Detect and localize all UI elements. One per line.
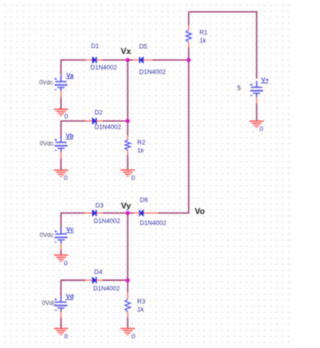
svg-text:1k: 1k bbox=[137, 306, 145, 313]
wire R1 top bbox=[188, 12, 190, 26]
diode D3 bbox=[92, 210, 96, 216]
wire Vx to D5 cathode bbox=[128, 59, 134, 61]
wire R3 to ground bbox=[127, 317, 129, 328]
wire D4 to R3 node bbox=[103, 279, 128, 281]
pin R1 top lead bbox=[188, 26, 190, 31]
wire Va top pin bbox=[60, 59, 62, 75]
svg-text:0: 0 bbox=[64, 175, 68, 182]
pin D1 cathode lead bbox=[97, 59, 103, 61]
svg-text:D6: D6 bbox=[140, 197, 149, 204]
resistor R2 bbox=[125, 140, 130, 151]
svg-text:D1: D1 bbox=[91, 43, 100, 50]
pin D6 cathode lead bbox=[133, 212, 139, 214]
resistor R1 bbox=[186, 30, 191, 42]
svg-text:D1N4002: D1N4002 bbox=[95, 124, 122, 131]
pin D3 cathode lead bbox=[97, 212, 103, 214]
wire D3 to node Vy bbox=[103, 212, 128, 214]
wire Vo corner to D6 anode bbox=[158, 212, 189, 214]
diode D1 bbox=[92, 57, 96, 63]
diode D4 bbox=[92, 277, 96, 283]
diode D2 bbox=[92, 118, 96, 124]
wire Vd top pin bbox=[60, 280, 62, 296]
wire node to Vo vertical bbox=[188, 60, 190, 214]
svg-text:1k: 1k bbox=[200, 38, 208, 45]
wire Vb bottom to ground bbox=[60, 158, 62, 170]
junction R1/D5/Vo node bbox=[187, 58, 191, 62]
wire Vz bottom to ground bbox=[256, 103, 258, 121]
wire Vx vertical bbox=[127, 60, 129, 135]
resistor R3 bbox=[125, 299, 130, 311]
svg-text:R3: R3 bbox=[137, 298, 146, 305]
svg-text:Vo: Vo bbox=[195, 206, 205, 216]
voltage source Va (0Vdc) bbox=[55, 75, 68, 97]
pin D5 cathode lead bbox=[133, 59, 139, 61]
pin D4 cathode lead bbox=[97, 279, 103, 281]
svg-text:Vx: Vx bbox=[121, 46, 132, 56]
wire Va corner to D1 anode bbox=[61, 59, 85, 61]
wire Vz top bbox=[256, 11, 258, 78]
name label Vb bbox=[66, 133, 74, 140]
pin D5 anode lead bbox=[143, 59, 152, 61]
svg-text:0: 0 bbox=[64, 114, 68, 121]
ground below Va bbox=[54, 109, 68, 115]
svg-text:0: 0 bbox=[64, 260, 68, 267]
svg-text:D1N4002: D1N4002 bbox=[94, 218, 121, 225]
pin D4 anode lead bbox=[85, 279, 92, 281]
name label Va bbox=[66, 72, 74, 79]
pin D1 anode lead bbox=[85, 59, 92, 61]
svg-text:1k: 1k bbox=[137, 148, 145, 155]
wire Vb top pin bbox=[60, 120, 62, 136]
pin R1 bottom lead bbox=[188, 42, 190, 47]
svg-text:0: 0 bbox=[132, 333, 136, 340]
junction D4/R3 node bbox=[126, 278, 130, 282]
pin R2 top lead bbox=[127, 135, 129, 139]
wire D1 to node Vx bbox=[103, 59, 128, 61]
ground below Vc bbox=[54, 255, 68, 261]
svg-text:D5: D5 bbox=[139, 44, 148, 51]
svg-text:0Vdc: 0Vdc bbox=[42, 301, 56, 307]
wire Vy vertical bbox=[127, 213, 129, 292]
name label V+ (Vz) bbox=[261, 77, 269, 84]
name label Vd bbox=[66, 293, 74, 300]
diode D5 bbox=[140, 57, 144, 63]
ground below Vb bbox=[54, 170, 68, 176]
svg-text:D1N4002: D1N4002 bbox=[139, 69, 166, 76]
pin D2 anode lead bbox=[85, 120, 92, 122]
wire Vc corner to D3 anode bbox=[61, 212, 85, 214]
name label Vc bbox=[66, 227, 74, 234]
pin D6 anode lead bbox=[143, 212, 158, 214]
svg-text:0: 0 bbox=[260, 126, 264, 133]
wire top from R1 to Vz column bbox=[189, 11, 258, 13]
pin D3 anode lead bbox=[85, 212, 92, 214]
ground below Vd bbox=[54, 329, 68, 335]
svg-text:0: 0 bbox=[131, 175, 135, 182]
wire Vd corner to D4 anode bbox=[61, 279, 85, 281]
junction D2/R2 node bbox=[126, 119, 130, 123]
wire Vc bottom to ground bbox=[60, 250, 62, 255]
wire D6 to node Vy bbox=[128, 212, 134, 214]
wire D2 to Vx vertical bbox=[103, 120, 128, 122]
wire Vb corner to D2 anode bbox=[61, 120, 85, 122]
svg-text:D1N4002: D1N4002 bbox=[93, 285, 120, 292]
ground below Vz bbox=[250, 121, 264, 127]
svg-text:5: 5 bbox=[237, 85, 241, 92]
wire R2 to ground bbox=[127, 155, 129, 170]
svg-text:D3: D3 bbox=[95, 202, 104, 209]
wire R1 bottom to node bbox=[188, 47, 190, 60]
wire D5 to R1 node bbox=[152, 59, 188, 61]
pin D2 cathode lead bbox=[97, 120, 103, 122]
pin R3 bottom lead bbox=[127, 312, 129, 318]
voltage source Vc (0Vdc) bbox=[55, 228, 68, 250]
svg-text:D1N4002: D1N4002 bbox=[90, 65, 117, 72]
svg-text:R2: R2 bbox=[137, 140, 146, 147]
ground below R2 bbox=[121, 170, 135, 176]
voltage source Vd (0Vdc) bbox=[55, 296, 68, 318]
pin R2 bottom lead bbox=[127, 150, 129, 155]
svg-text:0Vdc: 0Vdc bbox=[39, 80, 53, 86]
wire Va bottom to ground bbox=[60, 97, 62, 109]
pin R3 top lead bbox=[127, 292, 129, 299]
svg-text:0Vdc: 0Vdc bbox=[40, 142, 54, 148]
wire Vd bottom to ground bbox=[60, 318, 62, 329]
svg-text:D4: D4 bbox=[94, 269, 103, 276]
wire Vc top pin bbox=[60, 212, 62, 227]
ground below R3 bbox=[121, 329, 135, 335]
svg-text:0: 0 bbox=[64, 333, 68, 340]
svg-text:Vy: Vy bbox=[121, 200, 131, 210]
voltage source Vb (0Vdc) bbox=[55, 136, 68, 158]
voltage source Vz (5V supply) bbox=[250, 81, 263, 103]
junction Vy bbox=[126, 211, 130, 215]
svg-text:D1N4002: D1N4002 bbox=[140, 220, 167, 227]
svg-text:R1: R1 bbox=[200, 30, 209, 37]
svg-text:D2: D2 bbox=[95, 109, 104, 116]
svg-text:0Vdc: 0Vdc bbox=[40, 233, 54, 239]
junction Vx bbox=[126, 58, 130, 62]
diode D6 bbox=[140, 210, 144, 216]
